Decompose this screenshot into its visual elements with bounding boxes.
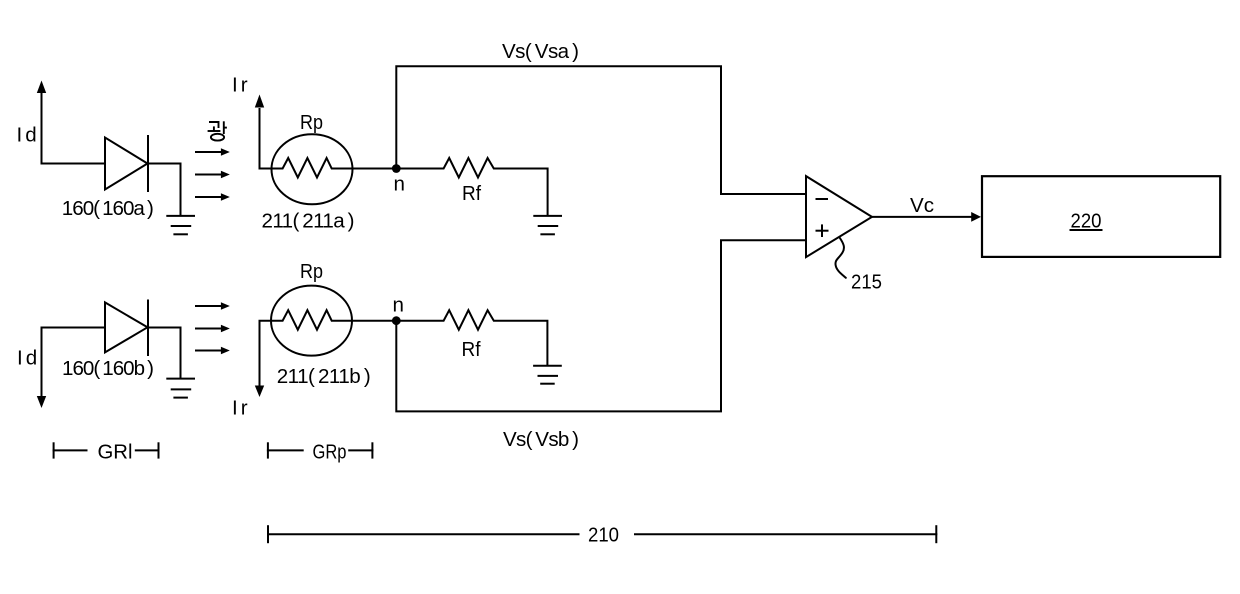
svg-text:215: 215 (851, 271, 882, 294)
svg-text:Rp: Rp (300, 260, 323, 283)
svg-text:160( 160b ): 160( 160b ) (62, 357, 154, 380)
svg-text:n: n (394, 172, 405, 195)
svg-text:Vs( Vsb ): Vs( Vsb ) (503, 428, 579, 451)
svg-text:160( 160a ): 160( 160a ) (62, 197, 154, 220)
svg-text:GRl: GRl (98, 441, 133, 464)
svg-text:211( 211a ): 211( 211a ) (262, 209, 355, 232)
svg-text:Id: Id (17, 347, 40, 370)
svg-text:Rf: Rf (462, 182, 481, 205)
svg-text:211( 211b ): 211( 211b ) (277, 365, 371, 388)
svg-text:n: n (393, 294, 404, 317)
svg-text:Rf: Rf (462, 338, 481, 361)
svg-text:GRp: GRp (313, 441, 347, 464)
svg-text:Vs( Vsa ): Vs( Vsa ) (502, 40, 579, 63)
svg-text:210: 210 (588, 524, 619, 547)
svg-text:220: 220 (1071, 209, 1102, 232)
svg-text:Rp: Rp (300, 111, 323, 134)
svg-text:Ir: Ir (232, 397, 251, 420)
svg-text:Vc: Vc (910, 194, 934, 217)
svg-text:Id: Id (17, 124, 40, 147)
svg-text:Ir: Ir (232, 74, 251, 97)
